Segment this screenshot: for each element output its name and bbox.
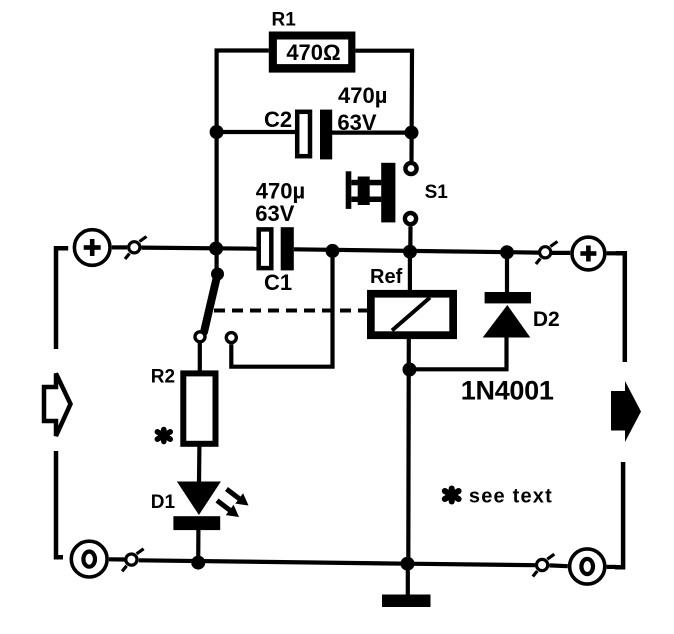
plug connector bottom right: [533, 554, 555, 576]
relay contact arm: [195, 268, 236, 343]
plug connector bottom left: [122, 549, 144, 572]
wire relay top: [408, 252, 412, 291]
LED D1: [173, 482, 221, 531]
wire C2 right: [332, 131, 412, 135]
asterisk see text: [445, 489, 459, 502]
wire frame left bottom segment: [56, 451, 63, 557]
wire plus terminal right to frame corner: [607, 251, 617, 255]
wire D2 top: [505, 252, 509, 293]
svg-text:C2: C2: [264, 107, 292, 132]
terminal zero right: [570, 549, 605, 584]
output arrow right (solid): [611, 381, 641, 442]
plug connector top left: [125, 237, 147, 260]
svg-text:D2: D2: [533, 308, 560, 331]
wire main line left: [142, 248, 257, 249]
wire bottom line: [139, 560, 536, 565]
wire frame left top segment: [56, 248, 68, 349]
wire frame right top segment: [616, 253, 625, 362]
svg-text:see text: see text: [469, 486, 553, 508]
svg-text:C1: C1: [264, 270, 292, 295]
wire S1 bottom to main line: [408, 226, 412, 251]
svg-text:Ref: Ref: [370, 266, 403, 288]
asterisk near R2: [157, 430, 170, 442]
wire LED to bottom line: [196, 529, 200, 563]
relay coil Ref: [367, 290, 457, 339]
wire zero terminal left to plug: [109, 557, 125, 561]
svg-text:470µ: 470µ: [338, 83, 387, 108]
wire contact circle to R2: [198, 343, 202, 371]
svg-text:R1: R1: [272, 10, 297, 31]
svg-text:63V: 63V: [255, 201, 294, 226]
wire main line right: [294, 249, 539, 252]
node C1 right: [326, 244, 340, 258]
wire plus terminal to plug left: [112, 245, 128, 249]
node main left: [209, 242, 223, 256]
wire relay bottom to ground node: [406, 339, 411, 564]
resistor R2: [183, 373, 215, 443]
node S1 relay: [403, 245, 417, 259]
svg-text:S1: S1: [425, 182, 449, 203]
node D2 top: [500, 245, 514, 259]
wire ground stem: [406, 564, 410, 595]
wire R2 to LED: [197, 446, 202, 483]
node D1 bottom: [191, 556, 205, 570]
terminal zero left: [71, 541, 107, 577]
wire D2 bottom corner: [410, 337, 507, 370]
terminal plus right: [572, 237, 605, 270]
wire plug to plus terminal right: [552, 251, 570, 255]
diode D2: [483, 292, 531, 338]
node C2 left: [210, 125, 224, 139]
svg-text:D1: D1: [151, 492, 176, 513]
resistor R1: [269, 32, 356, 73]
plug connector top right: [536, 242, 558, 265]
wire plug to zero terminal right: [549, 563, 568, 568]
svg-text:1N4001: 1N4001: [461, 376, 554, 406]
wire R1 right to S1: [355, 51, 412, 161]
capacitor C2: [297, 110, 332, 160]
capacitor C1: [259, 227, 294, 270]
svg-text:470µ: 470µ: [256, 179, 305, 204]
svg-text:63V: 63V: [337, 110, 376, 135]
dashed actuation link: [214, 309, 367, 313]
terminal plus left: [74, 230, 110, 266]
input arrow left (outline): [44, 374, 71, 437]
node ground: [401, 557, 415, 571]
LED emission arrows: [217, 489, 249, 517]
wire C1 right down around to contact: [231, 251, 332, 367]
ground: [382, 595, 431, 608]
wire R1 left to node: [217, 51, 269, 274]
wire frame right bottom segment: [615, 462, 623, 567]
wire C2 left: [217, 130, 296, 134]
node C2 right: [405, 126, 419, 140]
wire zero terminal right to frame corner: [607, 565, 616, 569]
switch S1: [346, 163, 417, 224]
svg-text:R2: R2: [151, 367, 175, 388]
node relay bottom: [403, 363, 417, 377]
svg-text:470Ω: 470Ω: [286, 40, 340, 65]
